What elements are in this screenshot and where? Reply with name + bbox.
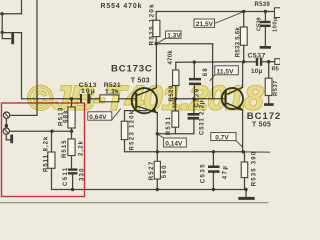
- voltage flag 0,64V: [88, 109, 121, 121]
- wire C529 bottom: [193, 85, 195, 99]
- svg-text:C537: C537: [248, 53, 266, 60]
- svg-text:100µ: 100µ: [273, 17, 279, 32]
- ground bar under R537: [264, 103, 274, 106]
- junction rail / R533 top: [242, 10, 245, 13]
- wire R523 top horizontal: [125, 111, 147, 122]
- voltage flag 0,7V: [211, 133, 243, 147]
- resistor R515: [68, 139, 75, 156]
- wire R525 bottom: [155, 37, 157, 44]
- wire between connector circles: [5, 118, 7, 128]
- svg-text:C539: C539: [257, 17, 263, 31]
- wire C535 top: [212, 152, 214, 166]
- wire R515 to C511: [71, 156, 73, 169]
- voltage flag 0,14V: [158, 134, 187, 147]
- svg-text:68: 68: [203, 67, 209, 76]
- transistor T503: [132, 88, 158, 114]
- wire connector line y=131.2: [10, 130, 72, 132]
- resistor R513: [68, 107, 75, 128]
- svg-text:R5: R5: [272, 66, 280, 72]
- junction bottom rail / R527 bottom: [156, 188, 159, 191]
- svg-text:0,14V: 0,14V: [165, 141, 183, 148]
- svg-text:470k: 470k: [168, 50, 174, 65]
- connector circle 2: [3, 128, 9, 134]
- wire C531 bottom: [193, 120, 195, 134]
- junction feedback line / C529 top: [193, 60, 196, 63]
- junction R513 bottom / R515 top: [70, 130, 73, 133]
- output pad square: [275, 59, 281, 65]
- svg-text:10µ: 10µ: [251, 68, 263, 75]
- feedback branch y=133.8: [157, 133, 194, 135]
- junction R511 top: [50, 130, 53, 133]
- connector circle 1: [3, 112, 9, 118]
- svg-text:BC173C: BC173C: [111, 63, 153, 74]
- resistor R535: [241, 162, 248, 178]
- wire R511 top: [51, 131, 53, 152]
- capacitor C531 plates: [188, 113, 200, 116]
- junction bottom rail / R535 bottom / ground: [244, 188, 247, 191]
- resistor R523: [121, 121, 128, 139]
- wire collector node to C537: [244, 61, 256, 63]
- junction top-left upper: [1, 12, 4, 15]
- ground bar connector area: [10, 135, 13, 144]
- wire vertical x=21.5 down to input line: [21, 33, 23, 99]
- voltage flag 21,5V: [194, 12, 244, 28]
- svg-text:R554 470k: R554 470k: [101, 3, 143, 10]
- wire R511 bottom to rail corner: [52, 168, 73, 189]
- resistor R537: [265, 78, 272, 95]
- ground stub bottom right: [245, 190, 247, 198]
- wire R513 top stub: [71, 99, 73, 107]
- bottom rail y=189.5: [73, 189, 246, 191]
- input signal wire y=98.8: [22, 98, 81, 100]
- svg-text:2,2k: 2,2k: [79, 140, 85, 156]
- ground bar top-left: [11, 33, 14, 44]
- voltage flag 1,3V: [157, 31, 182, 44]
- resistor R527: [154, 161, 160, 179]
- junction emitter bus / T505 emitter / R535: [242, 150, 245, 153]
- svg-text:R515: R515: [62, 139, 68, 158]
- svg-text:560: 560: [162, 164, 168, 178]
- supply rail y=11.5: [156, 11, 274, 13]
- ground bar under C539: [260, 46, 271, 49]
- wire R535 bottom: [244, 178, 246, 190]
- svg-text:R537: R537: [273, 80, 279, 96]
- junction R533 bottom / T505 collector node: [242, 60, 245, 63]
- wire R529 top: [175, 62, 177, 70]
- junction R513 top / input line: [70, 97, 73, 100]
- ground stub near connector 2: [6, 134, 10, 140]
- junction between input connectors: [5, 124, 8, 127]
- wire horizontal y=13.8: [1, 13, 22, 15]
- wire base node horizontal y=43.7: [156, 43, 212, 45]
- capacitor C539 plates: [260, 21, 271, 23]
- svg-text:R535 390: R535 390: [251, 151, 257, 187]
- red highlight box: [2, 103, 85, 197]
- wire R537 top: [268, 62, 270, 78]
- wire R529 bottom: [175, 86, 177, 99]
- resistor R521: [100, 95, 119, 102]
- transistor T505: [222, 87, 243, 110]
- svg-text:C535: C535: [201, 163, 207, 183]
- resistor R533: [240, 27, 247, 45]
- svg-text:47µ: 47µ: [223, 165, 229, 180]
- junction emitter bus / R527 top: [156, 150, 159, 153]
- capacitor C529 plates: [189, 78, 201, 81]
- svg-text:11,5V: 11,5V: [217, 68, 234, 75]
- svg-text:1,3V: 1,3V: [167, 32, 181, 39]
- wire R527 top: [156, 152, 158, 162]
- junction bottom rail / C511: [71, 188, 74, 191]
- wire C529 top: [193, 62, 195, 78]
- wire C539 bottom: [264, 27, 266, 46]
- faint separate line at bottom: [0, 202, 268, 204]
- svg-text:T 505: T 505: [252, 121, 271, 128]
- capacitor C513 plates: [80, 94, 82, 104]
- junction base line / R529-R531: [174, 97, 177, 100]
- resistor R511: [48, 152, 55, 168]
- wire R535 top: [244, 152, 246, 162]
- ground stub top-left: [2, 32, 10, 38]
- wire C513 to R521: [91, 98, 100, 100]
- wire connector line y=115.4: [10, 114, 37, 116]
- wire base node vertical x=212.6: [212, 44, 214, 99]
- wire T505 base: [213, 98, 225, 100]
- wire C535 bottom: [212, 173, 214, 190]
- junction bottom rail / C535 bottom: [212, 188, 215, 191]
- junction top-left lower: [1, 31, 4, 34]
- capacitor C511 plates: [68, 168, 78, 170]
- svg-text:R511 8,2k: R511 8,2k: [44, 136, 50, 172]
- emitter bus faint right extension: [243, 151, 269, 153]
- wire R527 bottom: [156, 179, 158, 190]
- wire R513 bottom stub: [71, 128, 73, 131]
- wire R537 bottom: [268, 96, 270, 104]
- wire horizontal y=32.6: [2, 32, 21, 34]
- wire C539 top: [264, 12, 266, 21]
- wire R531 top: [174, 99, 176, 111]
- wire R525 top corner: [155, 12, 157, 21]
- capacitor C535 plates: [208, 166, 220, 169]
- wire R515 top: [71, 131, 73, 139]
- svg-text:©JB-T401.2018: ©JB-T401.2018: [27, 80, 264, 118]
- wire R521 to T503 base: [119, 98, 136, 100]
- wire collector node T503 up: [155, 44, 157, 88]
- svg-text:R531: R531: [166, 116, 172, 136]
- svg-text:21,5V: 21,5V: [196, 21, 214, 28]
- capacitor C537 plates: [256, 58, 258, 66]
- svg-text:0,7V: 0,7V: [215, 134, 229, 141]
- junction R525 bottom / T503 collector node: [155, 42, 158, 45]
- wire R533 bottom: [243, 45, 245, 62]
- wire T503 emitter down: [156, 113, 158, 152]
- T505 base line stub: [173, 98, 213, 100]
- wire C531 top: [193, 99, 195, 113]
- junction C537 out / R537 top: [267, 60, 270, 63]
- svg-text:R525 120k: R525 120k: [148, 3, 155, 46]
- wire vertical x=37 full: [36, 0, 38, 115]
- ground bar bottom right: [238, 197, 254, 200]
- wire T505 collector: [242, 62, 244, 88]
- voltage flag 11,5V: [210, 66, 239, 81]
- wire C537 to output pad: [262, 61, 275, 63]
- wire left rail x=2.2: [1, 14, 3, 33]
- resistor R529: [173, 70, 179, 86]
- svg-text:R527: R527: [149, 160, 155, 180]
- resistor R531: [172, 111, 179, 127]
- wire top-left vertical from top edge: [21, 0, 23, 14]
- junction base line / C529-C531: [192, 97, 195, 100]
- resistor R525: [153, 20, 160, 36]
- wire T505 emitter down: [242, 110, 244, 152]
- emitter bus y=151.8: [157, 151, 243, 153]
- wire C511 bottom: [72, 175, 74, 190]
- wire R523 bottom to emitter bus: [125, 140, 158, 152]
- wire R531 bottom: [174, 127, 176, 134]
- resistor R539 at edge: [275, 8, 282, 18]
- junction T503 emitter / feedback branch (0,14V node): [156, 132, 159, 135]
- svg-text:C511: C511: [63, 166, 69, 186]
- wire R533 top: [243, 12, 245, 28]
- svg-text:R539: R539: [255, 2, 271, 8]
- feedback line y=62.1: [176, 61, 244, 63]
- svg-text:R533 5,6k: R533 5,6k: [235, 27, 241, 58]
- junction rail / C539 top: [264, 10, 267, 13]
- watermark: [27, 80, 264, 118]
- junction emitter bus / C535 top: [212, 150, 215, 153]
